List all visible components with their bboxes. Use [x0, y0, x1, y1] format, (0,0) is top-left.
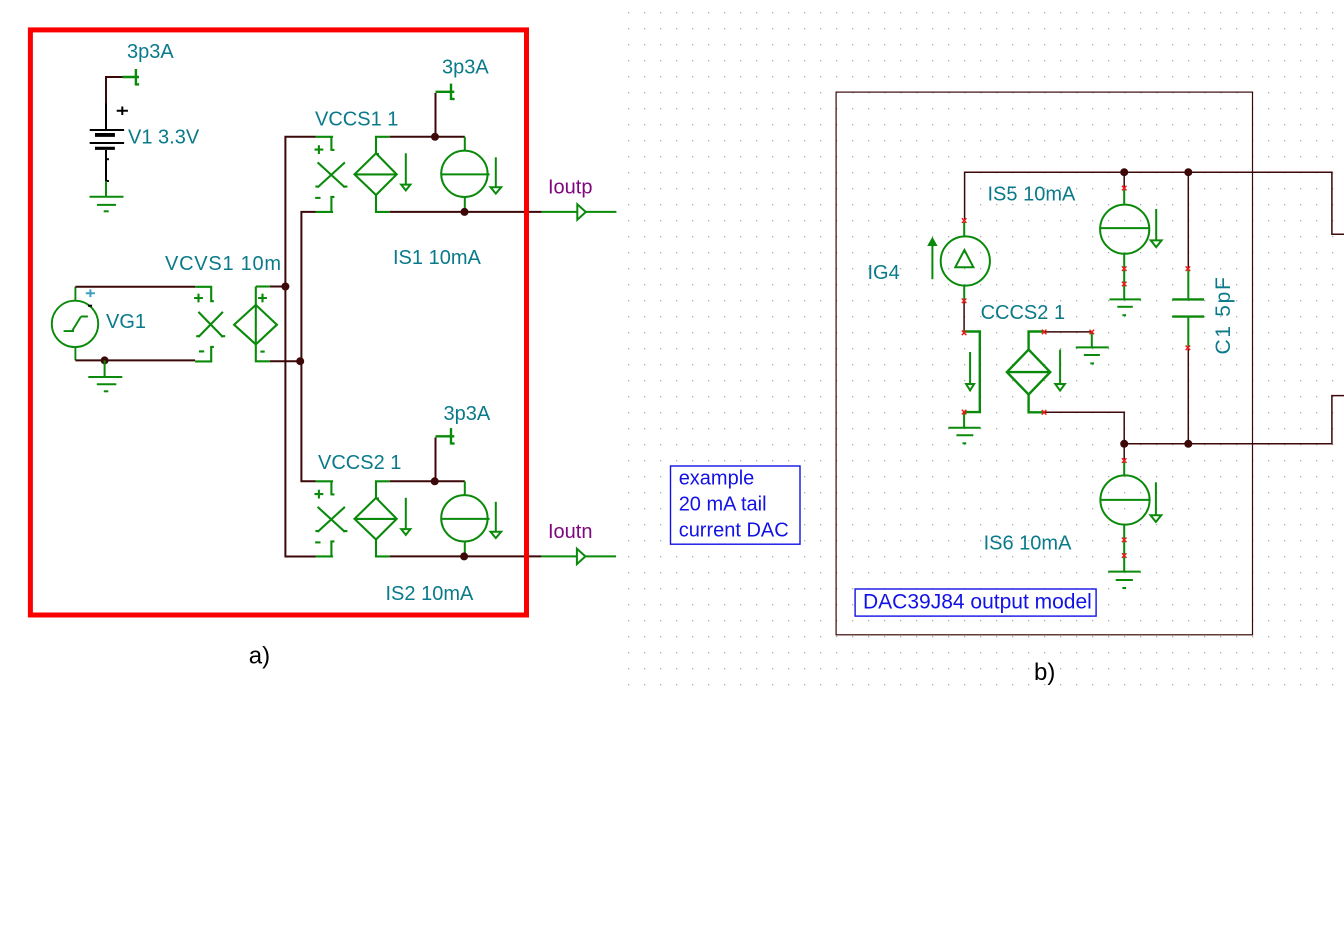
- controlled source VCVS1: [234, 287, 277, 362]
- input port X2 (VCCS1 control): [315, 137, 348, 212]
- svg-text:IS6 10mA: IS6 10mA: [984, 532, 1072, 554]
- current arrow (IS2): [491, 502, 502, 538]
- ground (VG1): [88, 360, 122, 391]
- svg-text:a): a): [249, 643, 270, 670]
- svg-text:IS1 10mA: IS1 10mA: [393, 247, 481, 269]
- wire 3p3A riser (VCCS1): [435, 93, 437, 137]
- current source IS1: [441, 137, 489, 212]
- node B (VCVS1 - / bus): [296, 357, 304, 365]
- wire VCVS1- to bus B: [270, 360, 302, 362]
- node (VCCS1 rail): [431, 133, 439, 141]
- CIRCUIT A: [30, 30, 616, 670]
- current source IS5: [1100, 189, 1149, 282]
- current arrow (IG4): [929, 239, 936, 279]
- ground (CCCS2 ref): [1076, 333, 1109, 363]
- svg-text:3p3A: 3p3A: [442, 57, 489, 79]
- svg-text:current DAC: current DAC: [679, 520, 789, 542]
- svg-text:CCCS2 1: CCCS2 1: [981, 302, 1065, 324]
- bus wire A: [285, 137, 315, 557]
- wire VG1- to port: [75, 359, 195, 361]
- polarity mark (VG1): [88, 305, 92, 307]
- svg-text:IS2 10mA: IS2 10mA: [386, 583, 474, 605]
- power jumper (VCCS2 3p3A): [436, 428, 455, 444]
- model box: [836, 92, 1252, 635]
- svg-text:V1 3.3V: V1 3.3V: [128, 127, 200, 149]
- wire VCCS1 top rail: [390, 136, 465, 138]
- node (bottom rail / C1): [1184, 440, 1192, 448]
- wire Ioutn: [464, 555, 541, 557]
- wire (IS5 top pin): [1123, 172, 1125, 187]
- callout DAC39J84 output model: [855, 589, 1096, 616]
- capacitor C1: [1172, 270, 1204, 347]
- series current arrow probe: [964, 332, 980, 413]
- controlled source CCCS2: [1007, 332, 1050, 413]
- current arrow (IS1): [491, 157, 502, 193]
- wire VCVS1+ to bus A: [270, 286, 287, 288]
- output arrow (Ioutp): [577, 204, 586, 219]
- callout example 20 mA tail current DAC: [671, 466, 801, 544]
- ground (V1): [90, 181, 124, 211]
- svg-text:Ioutn: Ioutn: [548, 521, 592, 543]
- svg-text:VG1: VG1: [106, 311, 146, 333]
- CIRCUIT B: [671, 92, 1344, 686]
- node (VCCS2 rail): [431, 477, 439, 485]
- svg-text:b): b): [1034, 659, 1055, 686]
- node (top rail / IS5): [1120, 168, 1128, 176]
- svg-text:3p3A: 3p3A: [444, 403, 491, 425]
- polarity + (VG1): [86, 289, 95, 297]
- node (top rail / C1): [1184, 168, 1192, 176]
- wire (C1 top): [1187, 172, 1189, 267]
- wire V1 top: [106, 77, 123, 105]
- output arrow (Ioutn): [577, 549, 586, 564]
- svg-text:IS5 10mA: IS5 10mA: [988, 184, 1076, 206]
- ground (IS6): [1108, 557, 1140, 589]
- wire bottom rail: [1124, 396, 1344, 444]
- svg-text:IG4: IG4: [868, 262, 900, 284]
- wire VCCS1 out rail: [390, 211, 465, 213]
- wire VCCS2 top rail: [390, 480, 465, 482]
- wire VG1+ to port: [75, 286, 195, 288]
- current source IS2: [441, 481, 489, 556]
- controlled source VCCS2: [355, 481, 397, 556]
- power jumper (VCCS1 3p3A): [436, 84, 455, 100]
- current source IG4: [941, 222, 990, 300]
- svg-text:Ioutp: Ioutp: [548, 176, 592, 198]
- wire top rail: [965, 172, 1344, 234]
- current arrow (VCCS2): [401, 498, 410, 535]
- svg-text:DAC39J84 output model: DAC39J84 output model: [863, 591, 1092, 614]
- ground (IG4 branch): [948, 413, 980, 443]
- wire CCCS2 out: [1044, 412, 1124, 444]
- svg-text:3p3A: 3p3A: [127, 41, 174, 63]
- voltage generator VG1: [52, 287, 98, 361]
- current arrow (VCCS1): [401, 153, 410, 190]
- svg-text:VCVS1 10m: VCVS1 10m: [165, 253, 282, 275]
- svg-text:VCCS2 1: VCCS2 1: [318, 452, 401, 474]
- controlled source VCCS1: [355, 137, 397, 212]
- svg-text:VCCS1 1: VCCS1 1: [315, 109, 398, 131]
- current arrow (IS6): [1151, 482, 1162, 522]
- highlight box: [30, 30, 526, 615]
- power jumper (V1 3p3A): [123, 69, 140, 86]
- node (bottom rail / IS6): [1120, 440, 1128, 448]
- input port X3 (VCCS2 control): [315, 481, 348, 556]
- current arrow (IS5): [1151, 209, 1162, 247]
- current arrow (CCCS2): [1055, 350, 1065, 391]
- wire Ioutp: [465, 211, 542, 213]
- pin connection marks (red x): [962, 186, 1190, 558]
- wire IG4 to series arrow: [963, 302, 965, 332]
- ground (IS5): [1110, 285, 1141, 315]
- bus wire B: [301, 212, 315, 481]
- svg-text:C1 5pF: C1 5pF: [1212, 275, 1235, 354]
- current source IS6: [1100, 462, 1149, 555]
- node (IS2 out): [460, 552, 468, 560]
- wire CCCS2 ref to ground: [1044, 331, 1092, 333]
- wire VCCS2 out rail: [390, 555, 464, 557]
- junction (VG1 ground): [101, 356, 109, 364]
- node A (VCVS1 + / bus): [281, 283, 289, 291]
- svg-text:20 mA tail: 20 mA tail: [679, 494, 767, 516]
- node (IS1 out): [461, 208, 469, 216]
- input port X1 (VCVS1 control): [194, 287, 225, 362]
- battery V1: [90, 104, 128, 182]
- wire (IS6 top pin): [1123, 444, 1125, 460]
- wire 3p3A riser (VCCS2): [435, 438, 437, 482]
- wire (C1 bottom): [1187, 349, 1189, 444]
- svg-text:example: example: [679, 468, 755, 490]
